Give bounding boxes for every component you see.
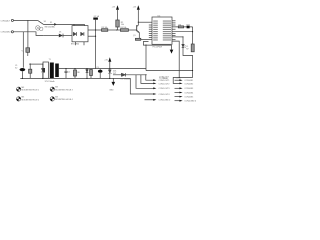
svg-text:CON2-OUT1: CON2-OUT1 <box>159 80 170 82</box>
wire <box>172 26 193 28</box>
riser to row4 <box>130 78 153 94</box>
junction <box>145 74 146 75</box>
junction <box>42 64 43 65</box>
svg-text:R4 10k: R4 10k <box>120 27 126 29</box>
svg-text:Q1: Q1 <box>133 35 136 37</box>
fuse F2 body <box>93 18 98 20</box>
svg-text:CON3-IN4: CON3-IN4 <box>184 92 193 94</box>
wire <box>27 52 29 56</box>
rail <box>29 63 43 65</box>
junction <box>145 45 146 46</box>
resistor R5 <box>135 38 140 40</box>
svg-text:R7: R7 <box>186 48 188 50</box>
rail 5V <box>59 68 146 70</box>
pin stub <box>75 42 77 46</box>
junction <box>86 68 87 69</box>
junction <box>192 31 193 32</box>
wire <box>138 21 152 23</box>
switch S1 <box>38 20 44 24</box>
wire <box>172 41 179 77</box>
resistor R7 <box>191 44 194 52</box>
wire <box>146 70 193 72</box>
svg-text:12V 150mA: 12V 150mA <box>45 80 56 83</box>
mounting hole 2 <box>16 97 20 101</box>
svg-text:CON3-IN1: CON3-IN1 <box>184 80 193 82</box>
svg-text:C3: C3 <box>96 67 98 69</box>
junction <box>74 68 75 69</box>
mounting hole 4 <box>50 97 54 101</box>
svg-text:CON2-GND 0: CON2-GND 0 <box>159 100 171 102</box>
junction <box>22 78 23 79</box>
bridge BR1 box <box>72 26 88 42</box>
svg-text:D3 1N4004: D3 1N4004 <box>121 78 131 80</box>
riser to row3 <box>136 75 153 89</box>
capacitor C3 blob <box>99 69 101 70</box>
IC U1 PIC <box>152 17 172 44</box>
junction <box>95 29 96 30</box>
plug icon <box>36 26 44 31</box>
svg-text:PIC12F629: PIC12F629 <box>153 47 163 49</box>
transformer winding <box>50 63 54 79</box>
junction <box>42 78 43 79</box>
wire <box>14 19 38 21</box>
junction <box>116 29 117 30</box>
pin stub <box>83 42 85 46</box>
svg-text:CON1-ACT: CON1-ACT <box>1 19 12 22</box>
svg-text:S1: S1 <box>44 21 46 23</box>
svg-text:T1: T1 <box>49 59 51 61</box>
ground arrow <box>171 45 173 50</box>
wire <box>88 35 96 37</box>
wire <box>182 37 184 44</box>
resistor R2 <box>116 20 119 27</box>
labels <box>1 6 197 102</box>
junction <box>86 78 87 79</box>
wire <box>43 35 59 37</box>
fuse F1 mark <box>54 23 57 26</box>
wire <box>14 32 44 36</box>
power arrow +5V b <box>137 5 140 9</box>
wire under IC <box>143 42 171 46</box>
mounting hole 3 <box>50 87 54 91</box>
terminal CON1 active <box>11 19 13 21</box>
LED D4 <box>182 44 185 47</box>
connector right column pins <box>175 80 180 101</box>
wire <box>192 27 194 44</box>
svg-text:+5V: +5V <box>112 6 116 8</box>
resistor R10 <box>29 64 31 69</box>
svg-text:CON3-IN5: CON3-IN5 <box>184 97 193 99</box>
svg-text:CON2-OUT2: CON2-OUT2 <box>159 83 170 85</box>
transistor Q1 <box>136 25 138 31</box>
wire <box>108 29 121 31</box>
svg-text:CON2-OUT3: CON2-OUT3 <box>159 88 170 90</box>
svg-text:SW 250VAC: SW 250VAC <box>45 26 56 29</box>
wire <box>128 29 136 31</box>
svg-text:CON3-IN3: CON3-IN3 <box>184 88 193 90</box>
wire <box>172 31 193 33</box>
transformer core <box>55 64 59 78</box>
wire <box>22 32 24 68</box>
svg-text:CON2-OUT4: CON2-OUT4 <box>159 94 170 96</box>
IC pin name rows <box>153 21 158 22</box>
junction <box>109 78 110 79</box>
wire <box>44 23 85 25</box>
svg-text:CON1-NEU: CON1-NEU <box>1 32 12 34</box>
pin stub <box>84 24 86 25</box>
power arrow +5V c <box>108 57 111 61</box>
svg-text:X2: X2 <box>15 67 17 69</box>
bridge diode b <box>81 32 84 36</box>
wire <box>183 47 193 77</box>
capacitor C1 <box>20 68 26 71</box>
transformer T1 box <box>43 62 49 78</box>
varistor MOV1 <box>26 48 30 53</box>
wire <box>63 35 72 37</box>
buzzer blob <box>187 26 190 29</box>
svg-text:MOUNTING HOLE 1: MOUNTING HOLE 1 <box>22 90 40 92</box>
svg-text:V1: V1 <box>22 50 24 52</box>
wire <box>172 36 183 38</box>
resistor R11 <box>74 69 76 70</box>
wire <box>141 38 152 40</box>
pin stubs right <box>172 20 176 22</box>
junction <box>182 36 183 37</box>
bottom rail <box>20 77 130 79</box>
resistor R4 <box>120 29 128 32</box>
resistor R6 <box>178 26 183 28</box>
wire <box>117 27 119 30</box>
resistor R3 <box>102 29 108 32</box>
svg-text:D1: D1 <box>59 32 61 34</box>
wire <box>113 74 146 76</box>
svg-text:R3 10k: R3 10k <box>102 27 108 29</box>
svg-text:MOUNTING HOLE 4: MOUNTING HOLE 4 <box>55 99 73 101</box>
svg-text:R8: R8 <box>77 72 79 74</box>
resistor R12 <box>90 68 92 71</box>
junction <box>30 64 31 65</box>
zener ZD1 <box>109 69 111 70</box>
capacitor C2 <box>65 69 67 72</box>
bridge diode a <box>73 32 76 36</box>
svg-text:CON3-IN2: CON3-IN2 <box>184 83 193 85</box>
connector CON2 pins left column <box>145 99 154 101</box>
svg-text:MOUNTING HOLE 3: MOUNTING HOLE 3 <box>55 89 73 91</box>
svg-text:F1: F1 <box>50 22 52 24</box>
svg-text:5V1: 5V1 <box>113 73 116 75</box>
svg-text:CON3-GND 0: CON3-GND 0 <box>184 101 196 103</box>
svg-text:IC1: IC1 <box>158 15 161 17</box>
terminal CON1 neutral <box>11 31 13 33</box>
pin stubs left <box>149 24 152 26</box>
svg-text:CON3: CON3 <box>176 77 181 79</box>
junction <box>95 36 96 37</box>
wire <box>145 45 147 70</box>
svg-text:C2: C2 <box>68 71 70 73</box>
svg-text:BR1 W04: BR1 W04 <box>71 44 79 46</box>
junction <box>109 68 110 69</box>
junction <box>179 77 180 78</box>
diode D5 <box>86 68 88 71</box>
riser to row1 <box>146 75 153 80</box>
svg-text:10k: 10k <box>121 24 124 26</box>
wire <box>173 78 192 84</box>
svg-text:GND: GND <box>109 90 114 92</box>
diode D3 <box>121 73 125 76</box>
wire <box>88 29 102 31</box>
riser to row2 <box>141 75 153 84</box>
diode D1 <box>59 34 63 38</box>
wire <box>27 20 29 47</box>
junction <box>192 70 193 71</box>
power arrow +5V <box>116 5 119 9</box>
svg-text:F2 1A: F2 1A <box>94 15 100 18</box>
junction <box>138 22 139 23</box>
mounting hole 1 <box>16 87 20 91</box>
pin stub <box>73 24 75 25</box>
svg-text:MOUNTING HOLE 2: MOUNTING HOLE 2 <box>22 99 40 101</box>
svg-text:+5V: +5V <box>133 6 137 8</box>
junction <box>65 68 66 69</box>
zener ZD2 <box>42 64 44 68</box>
wire <box>95 20 97 69</box>
svg-text:R6: R6 <box>179 24 181 26</box>
svg-text:BZ1: BZ1 <box>187 24 190 26</box>
svg-text:+5V: +5V <box>104 59 108 61</box>
ground arrow b <box>112 78 114 82</box>
